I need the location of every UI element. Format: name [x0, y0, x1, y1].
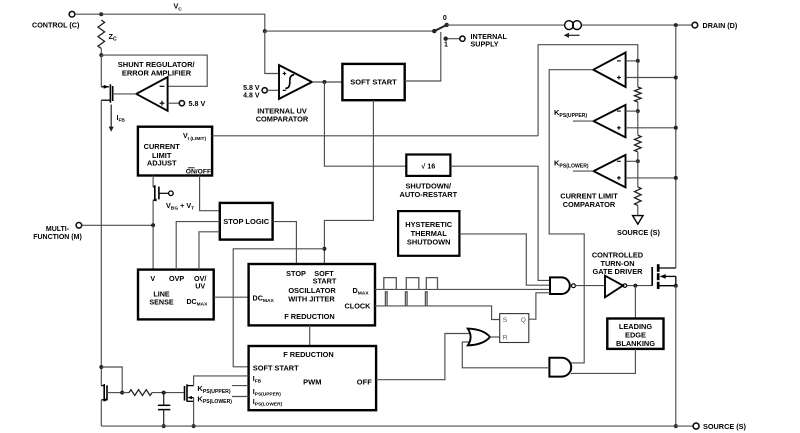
wire soft start down [324, 100, 373, 264]
node source bottom [674, 424, 678, 428]
wire U5 plus to rail [626, 177, 676, 179]
comparator U3 top [593, 53, 625, 88]
wire gate node to LEB [634, 286, 636, 319]
wire drain line right [582, 24, 692, 26]
terminal MULTI-FUNCTION (M) [76, 223, 82, 229]
wire DMAX line [375, 288, 550, 290]
comparator U5 KPS(LOWER) [594, 155, 626, 187]
block LINE SENSE [138, 270, 214, 320]
node shunt top [99, 53, 103, 57]
svg-text:START: START [313, 276, 337, 285]
svg-text:SOFT START: SOFT START [253, 363, 299, 372]
svg-text:SOFT START: SOFT START [350, 78, 397, 87]
block CURRENT LIMIT ADJUST [138, 127, 212, 176]
wire U4 out stub [573, 120, 594, 122]
svg-text:SENSE: SENSE [149, 298, 174, 307]
wire inverter to gate [627, 285, 653, 287]
svg-text:STOP: STOP [286, 269, 306, 278]
overline ON [188, 167, 195, 169]
wire U4 minus stub [626, 110, 638, 112]
svg-text:√ 16: √ 16 [421, 161, 435, 170]
wire VI(LIMIT) up [538, 45, 638, 136]
wire soft start to switch [405, 32, 441, 81]
wire drain rail upper [675, 25, 677, 268]
svg-text:COMPARATOR: COMPARATOR [563, 200, 616, 209]
svg-text:DRAIN (D): DRAIN (D) [703, 21, 738, 30]
node rail branch [99, 365, 103, 369]
capacitor C1 [163, 393, 165, 405]
node switch contact 1 [444, 37, 448, 41]
wire VI(LIMIT) to comparator [212, 135, 538, 137]
svg-text:BLANKING: BLANKING [616, 339, 655, 348]
transistor Q2 current limit adjust [153, 186, 155, 188]
wire OVP to stop logic [176, 222, 220, 270]
wire resistor to cap node [152, 392, 184, 394]
svg-text:SOURCE (S): SOURCE (S) [703, 422, 747, 431]
node soft start input [322, 80, 326, 84]
node Vc top [99, 12, 103, 16]
wire control to Zc [75, 13, 102, 15]
wire rail below shunt [100, 100, 102, 225]
transistor Q1 shunt PMOS [101, 86, 109, 88]
gate AND U8 [549, 358, 571, 377]
svg-text:AUTO-RESTART: AUTO-RESTART [399, 190, 457, 199]
wire and out to or [462, 342, 549, 368]
node cap top [162, 391, 166, 395]
svg-text:MULTI-: MULTI- [46, 226, 70, 233]
wire nand out [575, 285, 605, 287]
current IFB arrow [110, 105, 112, 129]
transistor Q4 sense [184, 386, 186, 401]
svg-text:SOURCE (S): SOURCE (S) [617, 228, 661, 237]
node M junction [151, 223, 155, 227]
wire op-amp plus to 5.8V [168, 102, 180, 104]
comparator U4 KPS(UPPER) [594, 105, 626, 137]
wire to sqrt16 [324, 82, 406, 166]
wire ON/OFF to stop logic [200, 176, 220, 211]
wire branch to gate [101, 367, 122, 393]
wire sqrt16 to nand [450, 166, 550, 280]
wire rail upper [100, 55, 102, 87]
current source I1 [565, 21, 574, 30]
svg-text:COMPARATOR: COMPARATOR [256, 115, 309, 124]
svg-text:5.8 V: 5.8 V [189, 99, 206, 108]
svg-text:HYSTERETIC: HYSTERETIC [405, 220, 452, 229]
node drain junction [674, 23, 678, 27]
svg-text:R: R [503, 334, 508, 341]
svg-text:CURRENT: CURRENT [144, 142, 181, 151]
wire chain seg2 [637, 152, 639, 161]
svg-text:S: S [503, 317, 508, 324]
gate NAND U6 [550, 277, 570, 294]
wire source rail [675, 286, 677, 426]
svg-text:ON/OFF: ON/OFF [186, 169, 211, 176]
terminal 5.8 V [179, 101, 184, 106]
wire contact1 to terminal [448, 38, 460, 40]
wire or out [490, 336, 500, 338]
svg-text:4.8 V: 4.8 V [243, 92, 260, 99]
wire UV comp plus input [265, 31, 279, 73]
op-amp U1 shunt regulator [136, 77, 167, 111]
wire CLOCK line [375, 306, 500, 320]
resistor R2 chain [637, 61, 639, 87]
wire M to line sense [82, 224, 153, 226]
block SOFT START [342, 64, 404, 100]
transistor Q3 mirror [101, 385, 104, 387]
svg-text:GATE DRIVER: GATE DRIVER [593, 267, 644, 276]
node soft start branch [322, 247, 326, 251]
svg-text:WITH JITTER: WITH JITTER [288, 295, 335, 304]
current source arrow [568, 34, 580, 36]
wire soft start to pwm [233, 249, 324, 367]
block STOP LOGIC [220, 203, 273, 240]
wire rail mid [100, 225, 102, 385]
wire LEB to and gate [571, 349, 635, 374]
svg-text:5.8 V: 5.8 V [243, 85, 260, 92]
node chain top [636, 59, 640, 63]
node cap bottom [162, 424, 166, 428]
waveform DMAX pulses [384, 278, 397, 290]
node rail U4 [674, 126, 678, 130]
gate OR U9 [468, 329, 490, 346]
svg-text:CONTROL (C): CONTROL (C) [32, 21, 80, 30]
wire Q4 source down [193, 398, 195, 427]
terminal CONTROL (C) [69, 11, 75, 17]
svg-text:STOP LOGIC: STOP LOGIC [223, 217, 270, 226]
svg-text:F REDUCTION: F REDUCTION [284, 312, 335, 321]
wire DCMAX to oscillator [214, 296, 249, 298]
wire OFF out [376, 334, 470, 380]
terminal DRAIN (D) [692, 22, 698, 28]
node gate junction [120, 391, 124, 395]
node source junction [674, 284, 678, 288]
wire U3 minus stub [626, 60, 638, 62]
resistor ZC [98, 20, 105, 49]
svg-text:FUNCTION (M): FUNCTION (M) [33, 234, 82, 241]
gate inverter U7 [605, 276, 623, 298]
ground SOURCE (S) arrow [633, 216, 643, 225]
node Vc bend [263, 29, 267, 33]
wire latch Q to nand [529, 293, 550, 319]
block LEADING EDGE BLANKING [607, 319, 663, 349]
terminal SOURCE (S) bottom [693, 423, 699, 429]
waveform CLOCK pulses [385, 292, 387, 306]
svg-text:OVP: OVP [169, 274, 184, 283]
node chain mid1 [636, 109, 640, 113]
svg-text:ERROR AMPLIFIER: ERROR AMPLIFIER [122, 68, 192, 77]
wire drain line left [447, 24, 565, 26]
svg-text:UV: UV [195, 281, 205, 290]
transistor Q5 output MOSFET [651, 267, 653, 286]
wire U5 out stub [573, 170, 594, 172]
wire Q4 drain to IFB [194, 376, 249, 386]
wire UV comp minus input [267, 89, 279, 91]
svg-text:ADJUST: ADJUST [147, 159, 177, 168]
wire stop logic out [273, 222, 297, 264]
svg-text:CLOCK: CLOCK [345, 302, 372, 311]
comparator U2 internal UV [279, 65, 312, 99]
wire U5 minus stub [626, 160, 638, 162]
block sqrt16 [406, 155, 450, 176]
node rail U5 [674, 176, 678, 180]
wire IPS(UPPER) stub [232, 385, 249, 387]
wire shunt feedback [101, 55, 207, 86]
node switch pivot [432, 29, 436, 33]
svg-text:V: V [150, 274, 155, 283]
wire chain to source [637, 206, 639, 216]
switch lever [434, 25, 446, 31]
svg-text:PWM: PWM [303, 378, 321, 387]
svg-text:SUPPLY: SUPPLY [471, 40, 499, 49]
latch U10 S/R [500, 314, 529, 343]
node chain mid2 [636, 159, 640, 163]
node rail U3 [674, 76, 678, 80]
svg-text:Q: Q [521, 317, 526, 324]
wire Vc horizontal [101, 14, 264, 31]
wire UV comp out [312, 81, 342, 83]
wire Zc bottom [100, 49, 102, 56]
wire box to Q2 [152, 176, 154, 188]
wire Vc to switch [265, 30, 435, 32]
node Q4 source rail [192, 424, 196, 428]
svg-text:0: 0 [443, 15, 447, 22]
wire thermal to nand [459, 234, 550, 285]
wire U4 plus to rail [626, 127, 676, 129]
wire rail low [100, 400, 102, 426]
wire chain seg1 [637, 102, 639, 111]
svg-text:THERMAL: THERMAL [411, 229, 448, 238]
wire bottom rail [101, 425, 693, 427]
wire Q2 to M node [152, 200, 154, 225]
svg-text:OFF: OFF [357, 378, 372, 387]
svg-text:1: 1 [444, 42, 448, 49]
resistor R4 chain [637, 161, 639, 187]
resistor R1 bottom [129, 390, 152, 396]
wire F reduction down [309, 325, 311, 346]
node switch contact 0 [445, 23, 449, 27]
wire V input [152, 225, 154, 269]
wire U3 out [549, 70, 593, 363]
wire gate to resistor [122, 392, 129, 394]
svg-text:F REDUCTION: F REDUCTION [283, 350, 334, 359]
wire U3 plus to rail [626, 77, 676, 79]
terminal INTERNAL SUPPLY [460, 36, 465, 41]
block PWM [249, 346, 377, 410]
svg-text:SHUTDOWN: SHUTDOWN [407, 238, 451, 247]
terminal 5.8/4.8 V [262, 88, 267, 93]
wire IPS(LOWER) stub [232, 396, 249, 398]
node gate node [633, 284, 637, 288]
block HYSTERETIC THERMAL SHUTDOWN [398, 211, 459, 256]
resistor R3 chain [637, 111, 639, 135]
wire OV/UV to stop logic [199, 232, 220, 270]
block OSCILLATOR WITH JITTER [249, 264, 375, 325]
